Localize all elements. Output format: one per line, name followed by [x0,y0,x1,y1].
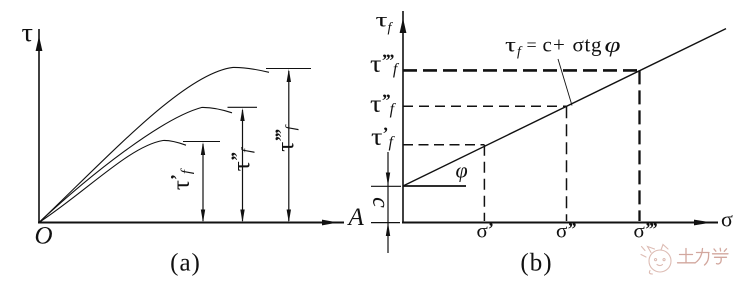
dashed line sigma''' vertical [638,70,640,221]
svg-text:O: O [35,223,53,250]
watermark char li [695,249,709,266]
svg-text:σ’’’: σ’’’ [634,219,658,243]
peak tick 2 [228,106,258,108]
c dimension upper arrow [386,173,390,187]
svg-text:φ: φ [456,158,468,183]
c dimension upper extension tick [371,185,401,187]
peak tick 3 [266,68,311,70]
dashed line tau''_f horizontal [403,105,567,107]
dimension arrow 1 (tau'_f) [201,142,205,223]
svg-text:(b): (b) [520,250,552,277]
curve 3 (top stress-strain curve) [39,67,269,222]
dimension arrow 3 (tau'''_f) [287,69,291,223]
svg-text:σ’: σ’ [477,219,494,243]
dimension arrow 2 (tau''_f) [240,108,244,223]
c dimension lower arrow [386,223,390,237]
x-axis (a) [38,220,344,226]
dashed line tau'''_f horizontal [403,69,640,72]
failure envelope line [403,29,726,186]
peak tick 1 [183,141,220,143]
phi reference line [403,185,466,187]
dashed line tau'_f horizontal [403,144,484,146]
svg-text:σ: σ [721,207,733,232]
y-axis (b) [400,11,407,224]
curve 1 (lowest stress-strain curve) [39,140,186,222]
c dimension line [387,152,389,253]
watermark char tu [678,249,695,263]
equation leader line [558,59,572,106]
watermark logo (cat head) [649,250,671,272]
svg-text:A: A [347,204,365,231]
svg-text:τ: τ [22,18,34,47]
dashed line sigma'' vertical [566,106,568,221]
curve 2 (middle stress-strain curve) [39,107,232,222]
y-axis (a) [36,29,43,224]
c dimension lower extension tick [371,222,400,224]
watermark char xue [713,248,729,264]
dashed line sigma' vertical [483,145,485,221]
svg-text:σ’’: σ’’ [556,219,576,243]
svg-text:c: c [367,197,393,208]
svg-text:(a): (a) [170,250,201,277]
x-axis (b) [402,220,718,226]
